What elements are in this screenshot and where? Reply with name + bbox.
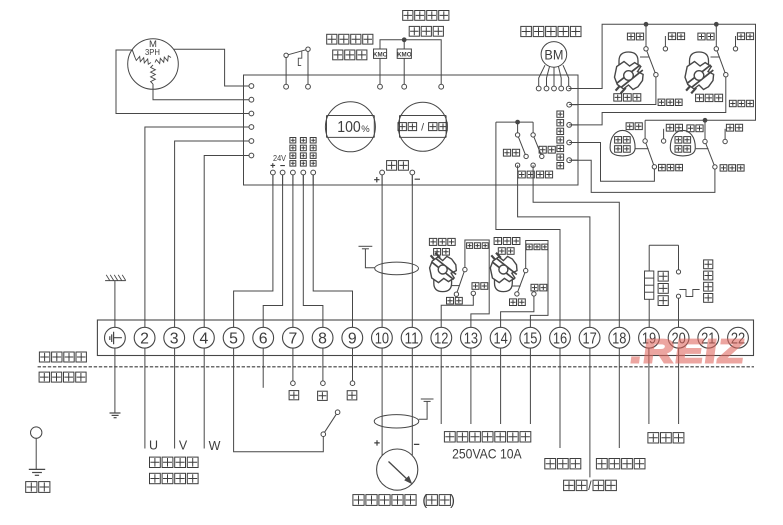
S2 common wire to terminal 13 <box>465 240 489 327</box>
terminal ground symbol <box>105 327 126 348</box>
terminal 21 <box>698 327 719 348</box>
terminal 12 stub <box>440 348 442 424</box>
terminal 5 <box>223 327 244 348</box>
wire motor left to U1 terminal <box>116 50 251 114</box>
svg-text:3PH: 3PH <box>145 47 160 57</box>
terminal 17 <box>579 327 600 348</box>
terminal 20 stub <box>678 348 680 424</box>
wire terminal 10 to indicator + <box>381 348 383 456</box>
svg-text:7: 7 <box>289 330 298 347</box>
wire motor to U1 terminal (top) <box>174 49 252 86</box>
cam switch S2 关到位信号 (close-position signal) <box>429 238 456 291</box>
S5 NC wire <box>715 24 717 46</box>
label 阀开继电器线圈 <box>403 11 413 21</box>
wire terminal 7 open button <box>292 348 294 381</box>
wire 24V- to terminal 6 <box>263 175 282 328</box>
terminal 16 <box>550 327 571 348</box>
S5 common wire to U1 <box>569 75 726 125</box>
svg-text:11: 11 <box>404 330 418 347</box>
wire terminal 3 to V <box>174 348 176 449</box>
S7 labels <box>687 125 694 132</box>
wire motor bottom to U1 terminal <box>153 84 251 100</box>
relay coil KMC (valve-close) <box>373 49 388 87</box>
terminal 2 <box>134 327 155 348</box>
torque switch S7 关过力矩 (close over-torque) <box>670 130 695 156</box>
S2 follower link <box>452 285 460 287</box>
svg-text:9: 9 <box>348 330 357 347</box>
separator internal/user wiring <box>38 366 754 368</box>
svg-text:14: 14 <box>493 330 508 347</box>
S4 follower link <box>640 56 649 58</box>
chassis ground (internal) <box>105 275 126 327</box>
svg-text:V: V <box>179 439 188 453</box>
U1 right edge terminals <box>569 104 578 106</box>
heater R1 <box>645 245 679 327</box>
S5 labels <box>698 33 705 40</box>
svg-text:U: U <box>149 439 158 453</box>
wire rail to terminal 16 <box>496 122 560 327</box>
svg-text:13: 13 <box>464 330 478 347</box>
S6 NC wire <box>644 120 646 139</box>
shield ferrite ellipse (internal) <box>375 262 419 275</box>
label 公共端 <box>545 459 556 469</box>
wire terminal 9 close button <box>352 348 354 381</box>
svg-text:250VAC 10A: 250VAC 10A <box>452 446 522 462</box>
terminal 3 <box>164 327 185 348</box>
S3 NO wire to terminal 14 <box>501 296 534 327</box>
junction KMO rail <box>402 37 407 42</box>
svg-text:3: 3 <box>170 330 179 347</box>
wire remote-open to terminal 7 <box>292 175 294 328</box>
U1 left terminals <box>249 84 254 89</box>
label 触点的最大容量 <box>444 432 455 442</box>
S3 blade <box>517 271 526 294</box>
S6 blade <box>645 141 654 167</box>
terminal 7 <box>283 327 304 348</box>
svg-text:%: % <box>361 124 370 135</box>
terminal 18 <box>609 327 630 348</box>
ground shield (internal) <box>359 246 375 267</box>
svg-text:W: W <box>209 439 221 453</box>
labels 远程阀开/远程保持/远程阀关 (vertical) <box>290 138 296 144</box>
terminal 15 stub <box>529 348 531 424</box>
wire terminal 8 stop button <box>322 348 324 381</box>
svg-text:18: 18 <box>612 330 626 347</box>
torque switch S6 开过力矩 (open over-torque) <box>610 130 635 156</box>
control unit box U1 <box>244 75 579 185</box>
svg-text:): ) <box>450 493 455 509</box>
svg-text:17: 17 <box>582 330 596 347</box>
svg-text:2: 2 <box>140 330 149 347</box>
terminal 16 stub <box>559 348 561 448</box>
absolute encoder BM <box>541 42 567 68</box>
S4 NO stub <box>664 36 666 47</box>
wire lower rail to torque switches <box>645 119 705 121</box>
encoder wires to terminals <box>539 65 545 88</box>
wire 24V+ to terminal 5 <box>234 175 273 328</box>
svg-text:8: 8 <box>318 330 327 347</box>
S5 contact circles <box>714 47 718 51</box>
limit switch S5 关到位 (close in position) <box>685 52 723 102</box>
interior switch SA (NC to T17) <box>515 122 528 167</box>
terminal 19 <box>639 327 660 348</box>
terminal 4 <box>194 327 215 348</box>
terminal 12 <box>431 327 452 348</box>
thermal protector S8 过热保护 <box>676 245 699 327</box>
wire terminal 2 to U <box>144 348 146 449</box>
U1 bottom terminals 24V/remote <box>272 175 274 186</box>
U1 output terminals <box>381 175 383 186</box>
S5 blade <box>716 49 726 75</box>
S2 labels 公共端/常开/常闭 <box>467 243 473 249</box>
S3 follower link <box>512 285 521 287</box>
terminal 17 stub <box>589 348 591 477</box>
indicator 远程/现场 gauge <box>398 102 447 151</box>
label 远程/现场 <box>564 479 617 493</box>
label 输出 + - <box>387 161 397 171</box>
wire U1 to terminal 2 <box>145 127 252 327</box>
interior switch SB (NC to T18) <box>531 122 544 167</box>
svg-text:5: 5 <box>229 330 238 347</box>
terminal 15 <box>520 327 541 348</box>
junction rail S4 <box>644 22 649 27</box>
shield ferrite ellipse (user) <box>374 415 419 428</box>
label 加热器 (bottom) <box>648 433 659 443</box>
terminal 14 stub <box>500 348 502 424</box>
terminal 13 <box>461 327 482 348</box>
S2 NO wire to terminal 12 <box>441 295 473 327</box>
svg-text:10: 10 <box>375 330 390 347</box>
thermal switch S1 (motor protector) <box>284 47 310 87</box>
svg-text:16: 16 <box>553 330 567 347</box>
earth electrode 接地 <box>29 427 45 475</box>
junction rail S5 <box>714 22 719 27</box>
label 交流电源 <box>150 473 161 483</box>
terminal 14 <box>490 327 511 348</box>
wire encoder supply rail to limit switches <box>569 24 756 120</box>
svg-text:4: 4 <box>200 330 209 347</box>
S4 common wire to U1 <box>569 75 656 105</box>
terminal 6 stub <box>262 348 264 388</box>
terminal 22 <box>728 327 749 348</box>
ground shield (user) <box>419 399 434 419</box>
terminal 20 <box>668 327 689 348</box>
wire terminal 11 to indicator - <box>411 348 413 455</box>
labels 开 停 关 <box>289 391 299 400</box>
label 限位过力矩开关 (vertical) <box>557 111 564 117</box>
S6 labels <box>626 123 633 130</box>
junction rail <box>515 120 520 125</box>
label 阀关继电器线圈 <box>327 34 337 44</box>
svg-text:KMC: KMC <box>373 51 388 58</box>
S5 follower link <box>711 56 720 58</box>
wire U1 to terminal 3 <box>175 141 252 327</box>
S3 labels 公共端/常开/常闭 <box>526 244 532 250</box>
label 综合报警 <box>596 459 607 469</box>
label 内部接线 <box>39 352 49 362</box>
junction lower rail <box>703 118 708 123</box>
relay coil KMO (valve-open) <box>397 49 412 87</box>
S6 NO stub <box>663 129 665 139</box>
terminal 6 <box>253 327 274 348</box>
earth ground below terminal 1 <box>110 348 121 418</box>
svg-text:24V: 24V <box>273 153 286 163</box>
cam switch S3 开到位信号 (open-position signal) <box>490 238 520 292</box>
wire U1 to terminal 4 <box>204 156 251 328</box>
label 绝对编码器 <box>521 26 532 36</box>
S3 contact circles <box>524 268 528 272</box>
wire remote-hold to terminal 8 <box>303 175 323 328</box>
terminal 9 <box>342 327 363 348</box>
svg-text:BM: BM <box>544 47 563 62</box>
S4 contact circles <box>644 47 648 51</box>
S6 contact circles <box>643 139 647 143</box>
wire SB to terminal 18 <box>533 165 619 327</box>
terminal 11 <box>401 327 422 348</box>
svg-text:/: / <box>421 122 424 134</box>
terminal 10 <box>372 327 393 348</box>
svg-text:15: 15 <box>523 330 537 347</box>
S2 contact circles <box>463 267 467 271</box>
S7 common wire to U1 <box>569 160 715 192</box>
S6 follower link <box>635 148 648 150</box>
labels + - indicator <box>374 440 419 445</box>
indicator meter M2 (position) <box>377 449 418 490</box>
motor M 3PH <box>128 39 179 90</box>
U1 top terminals <box>284 84 289 89</box>
S6 common wire to U1 <box>569 143 654 182</box>
S4 labels <box>627 33 634 40</box>
svg-text:.REIZ: .REIZ <box>628 333 748 371</box>
label 用户接线 <box>39 372 49 382</box>
label 位置指示器（输出） <box>353 493 455 509</box>
terminal 19 stub <box>648 348 650 424</box>
svg-text:/: / <box>588 479 592 493</box>
S5 NO stub <box>735 36 737 47</box>
S2 blade <box>456 270 465 295</box>
S7 contact circles <box>703 139 707 143</box>
label 过热保护 (vertical) <box>704 260 713 269</box>
wire terminal 4 to W <box>203 348 205 449</box>
wire output- to terminal 11 <box>411 175 413 328</box>
wire terminal 5 to external switch <box>234 348 324 452</box>
S7 follower link <box>696 148 709 150</box>
terminal 8 <box>312 327 333 348</box>
terminal 13 stub <box>470 348 472 424</box>
label 加热器 (vertical) <box>658 271 668 281</box>
svg-text:100: 100 <box>337 119 361 136</box>
label 接地 <box>26 482 37 493</box>
S7 NO stub <box>724 129 726 140</box>
terminal strip <box>97 320 753 356</box>
S7 blade <box>705 142 715 167</box>
wire SA to terminal 17 <box>518 165 590 327</box>
wire KMC/KMO supply rail <box>380 40 441 87</box>
svg-text:KMO: KMO <box>397 51 412 58</box>
svg-text:6: 6 <box>259 330 268 347</box>
terminal 18 stub <box>618 348 620 448</box>
indicator 100% gauge <box>325 102 375 152</box>
S7 NC wire <box>704 120 706 139</box>
label 外接三相 <box>150 457 161 467</box>
U1 interior contact rail <box>496 121 533 123</box>
wire remote-close to terminal 9 <box>313 175 352 328</box>
watermark REIZ logo <box>628 333 748 371</box>
S4 NC wire <box>645 24 647 46</box>
S3 common wire to terminal 15 <box>526 241 548 328</box>
labels 常闭/常开 interior <box>503 149 510 156</box>
S4 blade <box>646 49 656 75</box>
external switch S9 <box>321 410 340 437</box>
svg-text:12: 12 <box>434 330 448 347</box>
limit switch S4 开到位 (open in position) <box>614 52 643 101</box>
wire output+ to terminal 10 <box>381 175 383 328</box>
